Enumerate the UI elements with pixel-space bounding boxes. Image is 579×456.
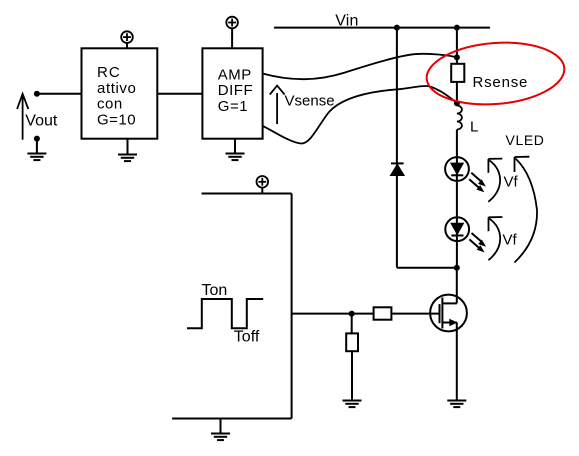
node at MOSFET drain xyxy=(454,265,460,271)
svg-text:Vout: Vout xyxy=(25,113,58,130)
svg-text:Ton: Ton xyxy=(202,282,228,299)
gate drive wire xyxy=(292,313,374,315)
node on Vin rail (Rsense branch) xyxy=(454,25,460,31)
node gate divider xyxy=(349,311,355,317)
Vsense arrow xyxy=(270,86,285,125)
svg-text:con: con xyxy=(97,96,123,113)
svg-text:Toff: Toff xyxy=(234,329,260,346)
ground of divider xyxy=(343,401,362,408)
power supply of AMP block xyxy=(226,17,238,29)
ground of MOSFET xyxy=(447,401,466,408)
Vout arrow xyxy=(17,94,28,140)
Vf arrow 1 xyxy=(488,159,502,202)
block AMP DIFF G=1 xyxy=(202,48,262,138)
sense leader curve upper xyxy=(263,54,457,79)
inductor L xyxy=(457,106,462,130)
wire xyxy=(351,351,353,400)
freewheel diode branch wire xyxy=(396,28,398,164)
svg-text:L: L xyxy=(470,119,478,136)
PWM block top line xyxy=(202,193,292,195)
node on Vin rail (diode branch) xyxy=(394,25,400,31)
transistor Q1 MOSFET xyxy=(430,295,467,332)
wire RC to AMP xyxy=(157,93,202,95)
block RC attivo con G=10 xyxy=(82,48,158,138)
resistor gate series xyxy=(374,307,392,319)
svg-text:DIFF: DIFF xyxy=(218,82,253,99)
drain wire xyxy=(456,268,458,304)
LED D3 xyxy=(445,217,486,252)
wire xyxy=(127,139,129,155)
wire xyxy=(220,419,222,434)
svg-text:Vin: Vin xyxy=(335,12,358,29)
svg-text:VLED: VLED xyxy=(506,132,545,148)
wire xyxy=(261,188,263,194)
svg-text:Vsense: Vsense xyxy=(285,92,335,109)
svg-text:RC: RC xyxy=(97,64,121,81)
VLED arrow xyxy=(515,157,538,263)
sense leader curve lower xyxy=(263,86,457,144)
ground of PWM block xyxy=(211,434,230,441)
PWM block right line xyxy=(291,194,293,419)
svg-text:G=10: G=10 xyxy=(97,111,136,128)
wire xyxy=(231,28,233,48)
power supply of PWM block xyxy=(257,176,269,188)
svg-text:Rsense: Rsense xyxy=(473,74,529,91)
PWM block bottom line xyxy=(172,418,292,420)
resistor Rsense xyxy=(451,64,464,82)
svg-text:AMP: AMP xyxy=(218,67,252,84)
wire xyxy=(37,93,82,95)
wire xyxy=(456,130,458,268)
PWM waveform xyxy=(187,299,263,328)
wire xyxy=(234,139,236,154)
wire xyxy=(351,314,353,334)
power supply of RC block xyxy=(121,31,133,43)
wire xyxy=(456,82,458,106)
ground of RC block xyxy=(118,155,137,162)
node Vout xyxy=(34,91,40,97)
ground at Vout xyxy=(27,154,46,161)
node xyxy=(34,136,40,142)
node lower sense tap xyxy=(454,100,460,106)
wire xyxy=(391,313,439,315)
Rsense branch wire xyxy=(456,28,458,64)
red highlight ellipse xyxy=(424,38,566,110)
wire to MOSFET drain node xyxy=(397,267,457,269)
node upper sense tap xyxy=(454,54,460,60)
MOSFET source arrow xyxy=(449,319,457,327)
source wire xyxy=(456,323,458,401)
ground of AMP block xyxy=(226,154,245,161)
LED D2 xyxy=(445,157,486,192)
svg-text:attivo: attivo xyxy=(97,80,136,97)
svg-text:Vf: Vf xyxy=(503,232,518,249)
resistor pulldown xyxy=(346,333,358,351)
wire xyxy=(36,139,38,154)
diode D1 xyxy=(391,162,404,164)
Vin rail xyxy=(274,27,490,29)
Vf arrow 2 xyxy=(488,217,502,260)
wire xyxy=(126,43,128,48)
svg-text:Vf: Vf xyxy=(504,174,519,191)
svg-text:G=1: G=1 xyxy=(218,98,248,115)
